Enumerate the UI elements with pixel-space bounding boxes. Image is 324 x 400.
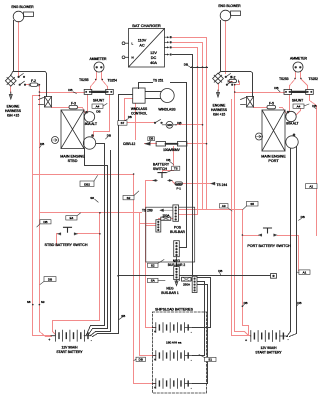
svg-text:+: + xyxy=(154,330,156,334)
label DB cbr xyxy=(148,137,155,143)
wire charger out 4 black xyxy=(173,55,193,277)
wire windlass control feed xyxy=(125,99,155,123)
wire windlass TS251 line xyxy=(139,83,153,89)
svg-text:AC: AC xyxy=(139,44,145,48)
fuse 250A neg xyxy=(182,277,192,281)
svg-text:F-3: F-3 xyxy=(71,102,76,106)
wire charger out 1 xyxy=(173,38,207,210)
svg-text:ENGINE: ENGINE xyxy=(213,104,226,108)
wire stbd F-2 feed down to battery xyxy=(26,85,40,323)
label DB stbd A4 xyxy=(96,109,100,113)
fuse 250A pos xyxy=(161,217,171,220)
ign switch stbd xyxy=(19,74,25,85)
wire stbd battery switch feed xyxy=(53,213,100,335)
svg-text:N: N xyxy=(132,56,134,60)
main engine port box xyxy=(262,110,285,151)
wire port blower neutral xyxy=(219,21,221,74)
wire port alt to shunt xyxy=(289,95,291,112)
fuse F-5 port xyxy=(267,105,276,108)
svg-text:F-1: F-1 xyxy=(177,186,182,190)
svg-text:A1: A1 xyxy=(303,270,307,274)
label DB charger junction xyxy=(184,62,190,67)
svg-text:+: + xyxy=(48,338,50,342)
battery shipsload 3 xyxy=(153,383,192,385)
blower port xyxy=(220,10,231,21)
label S7 windlass xyxy=(118,121,127,126)
fuse F-2 port xyxy=(229,79,237,82)
svg-text:TS254: TS254 xyxy=(108,78,118,82)
TS269 arrow xyxy=(160,209,173,212)
label DB port shunt right xyxy=(312,104,316,109)
wire stbd shunt to battery feed y92 xyxy=(40,92,85,94)
label DB left bottom xyxy=(40,277,56,285)
svg-text:+: + xyxy=(154,358,156,362)
label S8 stbd xyxy=(90,196,98,202)
neg right connector xyxy=(192,276,197,292)
svg-text:TS255: TS255 xyxy=(79,78,89,82)
svg-text:F-5: F-5 xyxy=(269,102,274,106)
wire stbd key to relay arc xyxy=(14,72,47,97)
label DB port batt feed xyxy=(243,301,248,306)
svg-text:180 A/H ea: 180 A/H ea xyxy=(166,341,182,345)
stbd battery switch xyxy=(64,227,72,232)
svg-text:+: + xyxy=(154,386,156,390)
windlass fuse 100 xyxy=(166,121,173,128)
relay stbd xyxy=(45,97,52,108)
svg-text:DB: DB xyxy=(184,62,188,66)
wire shipsload bat3 feed xyxy=(134,175,156,384)
pos bus left connector xyxy=(156,220,161,232)
harness arrow stbd xyxy=(9,92,12,99)
svg-text:BUS-BAR 1: BUS-BAR 1 xyxy=(161,291,179,295)
svg-text:GND: GND xyxy=(176,182,182,186)
charger terminal L xyxy=(122,42,125,45)
wire port shunt to battery feed xyxy=(235,92,285,94)
alternator port xyxy=(286,111,296,121)
svg-text:DC: DC xyxy=(151,56,157,60)
wire pos bus-bar right feeds xyxy=(179,210,243,215)
svg-text:POS: POS xyxy=(174,225,182,229)
wire stbd windlass gnd vertical 4 xyxy=(98,95,133,334)
wire port switch loop xyxy=(243,210,259,336)
wire stbd engine gnd to neg vertical 2 xyxy=(85,149,108,329)
label A4 port xyxy=(293,104,309,108)
wire port alt red tail xyxy=(297,105,301,115)
wire stbd blower hot xyxy=(18,22,20,77)
label S3 batt feed b xyxy=(41,300,45,304)
relay port xyxy=(247,97,254,108)
label S2 negbus2 xyxy=(148,260,165,268)
svg-text:12V: 12V xyxy=(150,51,157,55)
wire port F-5 line relay to alternator xyxy=(254,108,287,114)
shunt 100A/50MV xyxy=(156,142,166,146)
svg-text:STBD: STBD xyxy=(68,159,78,163)
svg-text:BUS-BAR: BUS-BAR xyxy=(170,230,185,234)
label DB port switch xyxy=(299,215,305,220)
wire windlass field line xyxy=(171,83,187,248)
label TS mid switch xyxy=(167,166,180,172)
wire stbd blower neutral xyxy=(11,21,14,76)
wire stbd shunt right down to starter xyxy=(94,95,110,137)
label A1 port xyxy=(296,270,310,275)
label DB8 windctl xyxy=(125,115,132,120)
svg-text:DB2: DB2 xyxy=(84,183,90,187)
wire stbd neg vertical 3 xyxy=(96,151,111,332)
wire port harness pin xyxy=(218,84,220,91)
sender port xyxy=(256,133,263,140)
label A2 port xyxy=(306,184,318,189)
mid distribution box xyxy=(146,207,195,262)
svg-text:STBD BATTERY SWITCH: STBD BATTERY SWITCH xyxy=(44,243,87,247)
svg-text:S2: S2 xyxy=(151,263,155,267)
wire stbd F-3 line relay to alternator xyxy=(52,108,86,114)
wire port blower hot xyxy=(225,21,227,74)
wire port starter to battery minus 1 xyxy=(288,149,291,336)
svg-text:DB: DB xyxy=(149,137,153,141)
battery stbd start 12V 90A/H xyxy=(51,335,91,337)
svg-text:TS 269: TS 269 xyxy=(142,209,153,213)
wire long TS269 line y212.8 xyxy=(40,212,142,214)
wire stbd battery + staircase xyxy=(33,323,52,337)
wire pos bus-bar left connector feeds xyxy=(140,224,157,226)
svg-text:S8: S8 xyxy=(90,196,94,200)
svg-text:DB: DB xyxy=(96,109,100,113)
fuse F-2 stbd xyxy=(30,83,38,86)
battery port start 12V 90A/H xyxy=(251,335,287,337)
shunt port xyxy=(284,89,292,94)
label A3 xyxy=(220,204,233,211)
svg-text:DB: DB xyxy=(68,88,72,92)
svg-text:SHIPSLOAD BATTERIES: SHIPSLOAD BATTERIES xyxy=(155,307,194,311)
svg-text:C/BR-12: C/BR-12 xyxy=(123,142,135,146)
svg-text:A2: A2 xyxy=(309,185,313,189)
svg-text:A4: A4 xyxy=(96,104,100,108)
TS244 arrow xyxy=(211,182,215,185)
svg-text:100A/50MV: 100A/50MV xyxy=(163,148,181,152)
label DB stbd shunt xyxy=(68,88,76,93)
svg-text:E4: E4 xyxy=(70,216,74,220)
charger terminal N xyxy=(122,56,125,59)
svg-text:SHUNT: SHUNT xyxy=(292,99,303,103)
svg-text:110V: 110V xyxy=(138,39,147,43)
shunt stbd xyxy=(84,89,92,94)
label DB stbd mid left xyxy=(40,142,45,148)
battery shipsload 2 xyxy=(153,355,192,357)
svg-text:BATTERY: BATTERY xyxy=(153,163,170,167)
svg-text:S5: S5 xyxy=(250,202,254,206)
svg-text:S2: S2 xyxy=(127,196,131,200)
label A4 stbd xyxy=(92,104,107,109)
svg-text:DB: DB xyxy=(40,142,44,146)
wire port shunt right down A2 line xyxy=(310,95,317,236)
wire port ammeter left leg xyxy=(290,72,296,90)
wire windlass fuse out to bus xyxy=(177,124,203,126)
svg-text:DB: DB xyxy=(43,220,47,224)
svg-text:-: - xyxy=(191,330,192,334)
blower stbd xyxy=(13,11,24,22)
wire stbd ign link y174 xyxy=(33,96,134,336)
svg-text:ENG BLOWER: ENG BLOWER xyxy=(11,5,34,9)
svg-text:S3: S3 xyxy=(41,300,45,304)
svg-text:ENGINE: ENGINE xyxy=(7,105,20,109)
svg-text:80A ALT: 80A ALT xyxy=(85,122,97,126)
wire port engine gnd to battery minus 2 xyxy=(290,147,297,337)
gnd arrow neg bus xyxy=(175,280,178,286)
svg-text:TS252: TS252 xyxy=(309,77,319,81)
wire port battery minus link xyxy=(287,336,288,338)
label DB shipsload left xyxy=(134,357,146,361)
svg-text:12V 90A/H: 12V 90A/H xyxy=(261,346,278,350)
svg-text:ENG BLOWER: ENG BLOWER xyxy=(218,4,241,8)
svg-text:DB: DB xyxy=(218,269,222,273)
battery shipsload 1 xyxy=(153,327,192,329)
svg-text:WINDLASS: WINDLASS xyxy=(158,108,176,112)
key switch port xyxy=(213,73,224,84)
bat charger box xyxy=(129,29,165,68)
svg-text:TS253: TS253 xyxy=(279,77,289,81)
label DB port shunt xyxy=(274,86,280,92)
wire stbd battery minus merge xyxy=(87,326,98,337)
wire mid battery switch feed xyxy=(163,147,174,173)
mid battery switch xyxy=(158,173,166,178)
starter stbd xyxy=(83,137,95,149)
svg-text:AMMETER: AMMETER xyxy=(90,57,108,61)
svg-text:MAIN ENGINE: MAIN ENGINE xyxy=(60,155,85,159)
gnd F-1 symbol xyxy=(175,182,182,185)
label S2 mid left xyxy=(123,191,139,200)
key switch stbd xyxy=(5,75,16,86)
label DB windlass out xyxy=(177,121,181,125)
wire C/BR-12 to shunt100 line xyxy=(145,143,207,145)
svg-text:SA: SA xyxy=(151,279,155,283)
svg-text:A4: A4 xyxy=(297,104,301,108)
svg-text:TS 244: TS 244 xyxy=(217,183,228,187)
label S5 port switch xyxy=(243,201,258,209)
fuse F-3 stbd xyxy=(69,105,78,108)
svg-text:HARNESS: HARNESS xyxy=(211,108,228,112)
wire shipsload bat2 feed xyxy=(140,213,156,356)
wire charger out 2 xyxy=(173,43,203,210)
label DB2 xyxy=(80,176,98,187)
wire charger out 3 xyxy=(173,48,198,215)
sender stbd xyxy=(52,137,59,144)
ammeter stbd xyxy=(94,62,104,72)
charger out arrows xyxy=(165,37,168,54)
wire mid switch left contact to shipsload bat1 xyxy=(146,181,156,328)
wire port key to relay arc xyxy=(221,72,253,97)
windlass switch xyxy=(155,120,161,123)
svg-text:HARNESS: HARNESS xyxy=(5,109,22,113)
svg-text:+: + xyxy=(245,339,247,343)
svg-text:-: - xyxy=(191,358,192,362)
svg-text:TS 251: TS 251 xyxy=(153,78,164,82)
windlass motor xyxy=(160,89,174,103)
label SA negbus1 xyxy=(148,278,166,282)
neg bus-bar 1 strip xyxy=(174,257,180,280)
svg-text:S1: S1 xyxy=(208,358,212,362)
starter port xyxy=(286,136,298,148)
svg-text:PORT: PORT xyxy=(268,159,279,163)
wire stbd starter to neg vertical 1 xyxy=(91,144,105,326)
pos bus-bar strip xyxy=(173,205,179,221)
wire stbd ammeter right leg xyxy=(102,72,108,90)
svg-text:WNDLASS: WNDLASS xyxy=(131,107,148,111)
ign switch port xyxy=(226,74,232,85)
svg-text:MAIN ENGINE: MAIN ENGINE xyxy=(261,155,286,159)
svg-text:250A: 250A xyxy=(162,213,169,217)
wire stbd alt to shunt xyxy=(87,95,89,112)
windlass control box xyxy=(133,88,145,103)
wire port ign link down xyxy=(232,100,249,336)
wire shipsload bat3 minus xyxy=(193,285,208,384)
alternator stbd xyxy=(84,112,94,122)
svg-text:100: 100 xyxy=(167,123,172,127)
label E4 stbd switch xyxy=(66,213,81,220)
svg-text:IGN +15: IGN +15 xyxy=(213,113,226,117)
svg-text:IGN +15: IGN +15 xyxy=(7,114,20,118)
wire windlass control to motor xyxy=(146,92,161,99)
svg-text:DB: DB xyxy=(139,357,143,361)
svg-text:F-2: F-2 xyxy=(231,75,236,79)
svg-text:S7: S7 xyxy=(121,121,125,125)
svg-text:CONTROL: CONTROL xyxy=(131,112,147,116)
wire port switch right contact out xyxy=(278,236,299,271)
svg-text:DB: DB xyxy=(274,86,278,90)
svg-text:80A ALT: 80A ALT xyxy=(286,122,298,126)
svg-text:S8: S8 xyxy=(27,300,31,304)
svg-text:TS: TS xyxy=(174,166,178,170)
svg-text:F-2: F-2 xyxy=(31,79,36,83)
label DB neg line right xyxy=(218,269,222,276)
label DB stbd starter xyxy=(106,134,111,139)
svg-text:START BATTERY: START BATTERY xyxy=(56,350,83,354)
svg-text:BAT CHARGER: BAT CHARGER xyxy=(132,23,161,28)
label S8 batt feed a xyxy=(27,300,31,304)
neg line end cap xyxy=(271,274,277,279)
wire port ammeter right leg xyxy=(301,72,308,90)
wire mid switch right contact to TS244 xyxy=(173,182,211,184)
svg-text:12V 90A/H: 12V 90A/H xyxy=(62,345,79,349)
svg-text:A3: A3 xyxy=(222,204,226,208)
ammeter port xyxy=(293,62,303,72)
svg-text:START BATTERY: START BATTERY xyxy=(255,350,282,354)
svg-text:40A: 40A xyxy=(150,61,157,65)
wire stbd harness pin xyxy=(10,87,12,93)
svg-text:-: - xyxy=(191,386,192,390)
svg-text:DB: DB xyxy=(48,277,52,281)
svg-text:250A: 250A xyxy=(183,282,190,286)
neg bus-bar 2 strip xyxy=(174,241,180,257)
wire windlass control bottom down xyxy=(135,104,137,140)
wire stbd battery switch contacts link xyxy=(57,234,100,246)
svg-text:PORT BATTERY SWITCH: PORT BATTERY SWITCH xyxy=(247,244,291,248)
wire charger junction bar y67 xyxy=(191,67,208,69)
wire stbd ammeter left leg xyxy=(91,72,97,90)
wire pos bus fuse link xyxy=(159,218,173,220)
shipsload dashed box xyxy=(152,312,206,393)
port battery switch xyxy=(264,228,272,233)
label DB mid switch xyxy=(166,158,173,165)
harness arrow port xyxy=(217,90,220,97)
svg-text:SWITCH: SWITCH xyxy=(153,167,168,171)
svg-text:BUS-BAR 2: BUS-BAR 2 xyxy=(168,263,186,267)
wire long neg bus line y275.8 xyxy=(119,275,271,277)
label S1 shipsload xyxy=(199,355,216,362)
svg-text:SHUNT: SHUNT xyxy=(93,99,104,103)
label DB port bottom xyxy=(297,301,302,306)
label DB stbd vertical xyxy=(37,220,51,227)
svg-text:AMMETER: AMMETER xyxy=(290,57,308,61)
main engine stbd box xyxy=(61,110,84,149)
label SB bottom xyxy=(119,314,126,320)
wire port F-2 feed down xyxy=(229,82,249,336)
wire shipsload bat2 minus xyxy=(193,282,205,356)
wire shipsload bat1 minus xyxy=(193,278,211,328)
